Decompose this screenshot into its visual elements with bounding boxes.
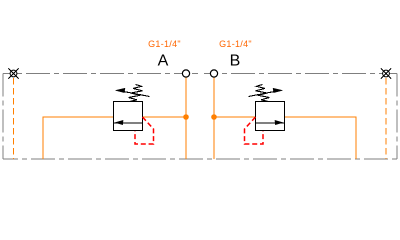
enclosure boundary top line middle segment [186, 73, 214, 75]
junction node on line A [183, 114, 189, 120]
relief valve V2 body [256, 102, 285, 131]
enclosure boundary left line [2, 74, 4, 160]
port B circle [210, 70, 217, 77]
junction node on line B [211, 114, 217, 120]
relief valve V2 red dashed pilot drain line [245, 117, 264, 144]
relief valve V1 adjustment arrow [116, 88, 150, 96]
svg-text:A: A [158, 53, 169, 70]
wire: orange dashed measuring line right [385, 78, 387, 159]
relief valve V1 body [114, 102, 143, 131]
relief valve V2 spring [256, 85, 270, 102]
enclosure boundary right line [396, 74, 398, 160]
svg-text:G1-1/4": G1-1/4" [219, 39, 252, 49]
port A circle [182, 70, 189, 77]
relief valve V2 adjustment arrow [249, 88, 283, 96]
relief valve V1 red dashed pilot drain line [135, 117, 154, 144]
svg-text:G1-1/4": G1-1/4" [148, 39, 181, 49]
wire: orange vertical line port B [213, 77, 215, 159]
wire: orange pressure line left (P to valve V1 inlet) [43, 117, 114, 159]
enclosure boundary top line [3, 73, 186, 75]
test point TP1 (crossed circle left) [8, 68, 18, 78]
wire: orange dashed measuring line left [13, 78, 15, 159]
enclosure boundary top line right segment [214, 73, 397, 75]
svg-text:B: B [230, 53, 241, 70]
enclosure boundary bottom line [3, 158, 397, 160]
wire: orange line node B to valve V2 inlet [214, 116, 256, 118]
wire: orange pressure line right (valve V2 outlet) [285, 117, 357, 159]
relief valve V1 spring [129, 85, 143, 102]
test point TP2 (crossed circle right) [381, 68, 391, 78]
wire: orange line valve V1 outlet to node A [143, 116, 187, 118]
wire: orange vertical line port A [185, 77, 187, 159]
